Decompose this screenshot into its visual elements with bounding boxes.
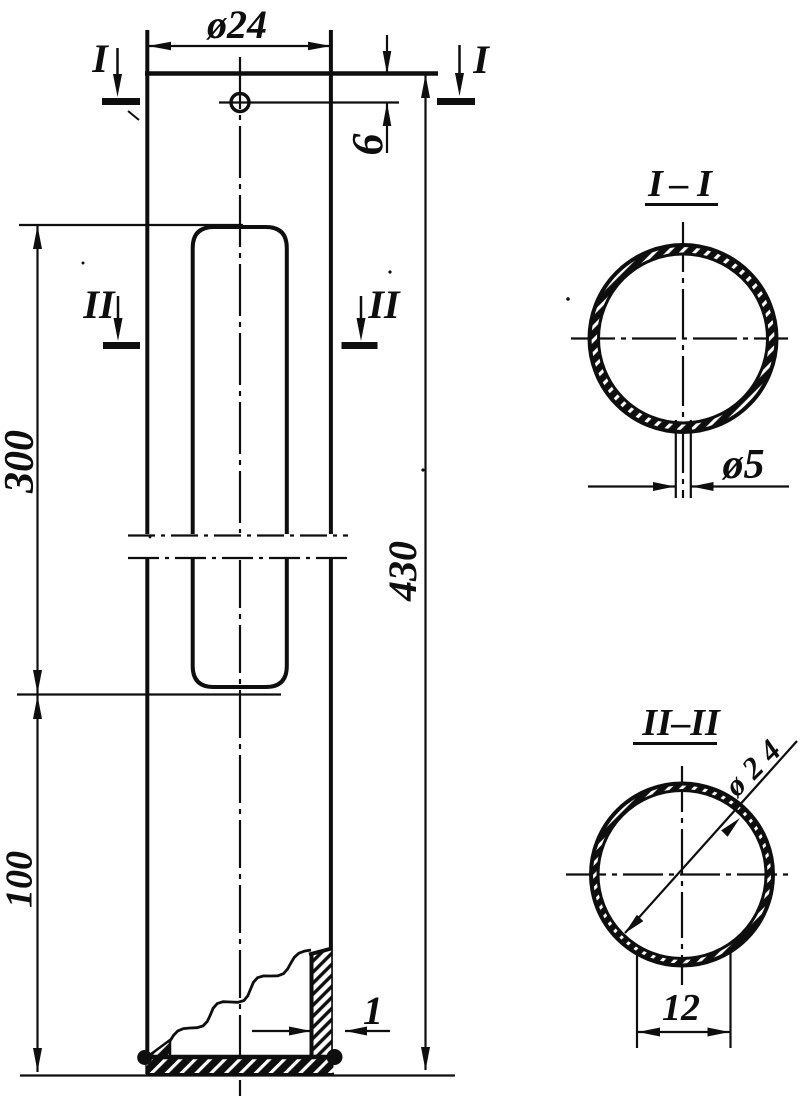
bottom plate hatched [147,1057,334,1075]
svg-text:12: 12 [662,987,700,1029]
speckle [128,111,139,120]
speckle dot above slot [149,536,152,539]
speckle dot near I-I [566,297,570,301]
svg-text:II: II [367,282,401,327]
speckle dot right of tube [421,468,424,471]
II-II horizontal centerline [566,873,793,875]
tube top edge [145,71,438,76]
slot lower part [193,559,287,687]
tube right edge [329,30,333,534]
svg-text:–: – [669,163,689,205]
II-II hatched tube ring [591,784,773,966]
speckle dot left [82,262,85,265]
dimension 6 [386,35,388,73]
svg-text:I: I [647,163,664,205]
weld dot right [327,1049,343,1065]
II-II vertical centerline [681,766,683,985]
dimension 300 top extension line [19,224,243,226]
speckle dot mid right [388,270,391,273]
hole centerline [219,101,399,103]
dimension 100 line [36,694,38,1072]
svg-text:430: 430 [380,541,425,602]
main vertical centerline (tube axis) [239,57,241,533]
base extension line [20,1074,455,1076]
break line lower [128,557,348,559]
svg-text:II: II [641,702,673,744]
12 dimension line [637,1031,731,1033]
dia 5 extension lines [675,420,677,498]
svg-text:6: 6 [343,134,392,156]
dia 24 dimension line [148,45,331,47]
svg-text:I: I [472,37,490,82]
hole circle [231,94,249,112]
plug bar hatched (right wall section) [311,949,331,1059]
svg-text:300: 300 [0,430,43,494]
wavy break line [170,950,311,1041]
extension line at slot bottom [17,693,281,695]
weld dot left [137,1050,152,1065]
I-I hatched tube ring [590,245,777,432]
svg-text:ø5: ø5 [722,442,765,488]
dia 5 dimension [588,485,675,487]
dimension 300 line [36,225,38,694]
svg-text:100: 100 [0,851,41,908]
I-I vertical centerline [682,222,684,498]
svg-text:II: II [689,702,721,744]
svg-text:–: – [671,702,691,744]
dimension 430 line [424,75,426,1070]
dimension 1 [252,1030,311,1032]
12 extension lines [636,952,638,1048]
tube left edge [145,30,149,534]
I-I horizontal centerline [571,337,788,339]
svg-text:ø24: ø24 [716,726,793,803]
svg-text:1: 1 [363,988,383,1033]
svg-text:ø24: ø24 [206,2,267,47]
weld triangle bottom left [147,1040,170,1057]
svg-text:II: II [82,282,116,327]
svg-text:I: I [91,36,109,81]
slot upper part [193,227,287,534]
svg-text:I: I [696,163,713,205]
dia 24 diagonal dimension [625,741,797,933]
break line upper [128,534,348,536]
